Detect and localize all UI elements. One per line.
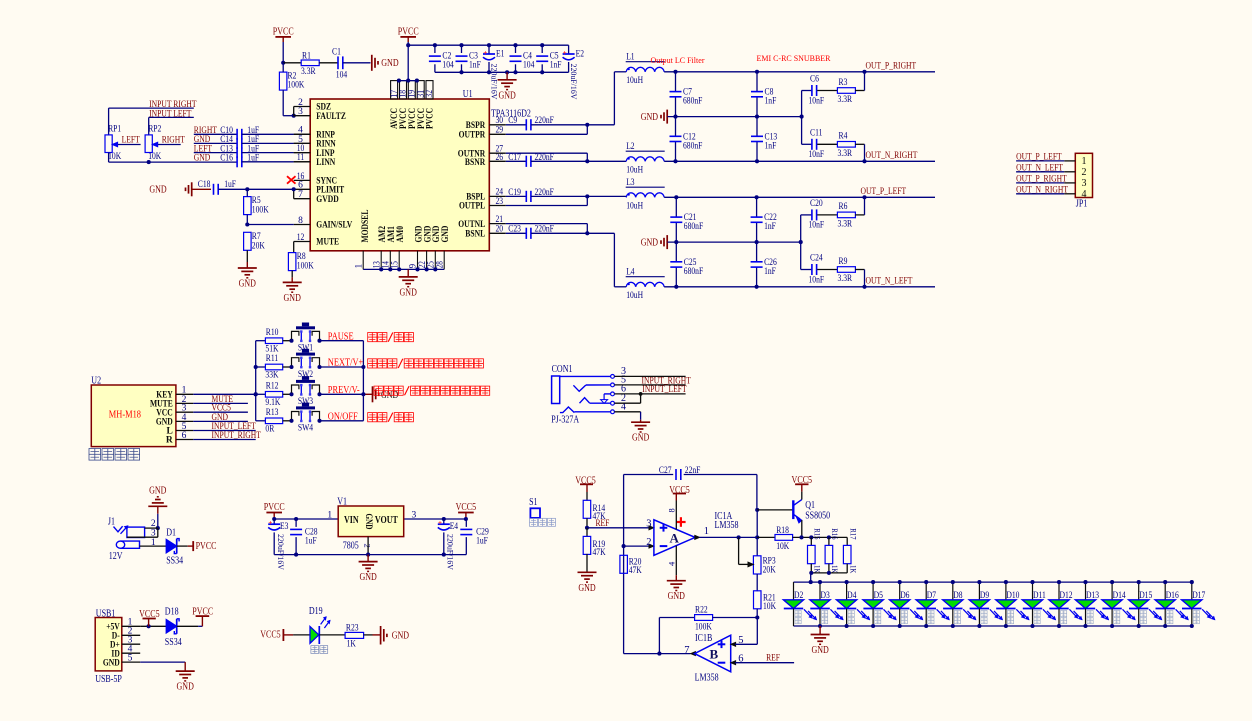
svg-text:PVCC: PVCC	[426, 108, 436, 129]
svg-text:1uF: 1uF	[224, 180, 236, 190]
svg-text:3: 3	[1082, 178, 1087, 189]
svg-text:5: 5	[128, 654, 133, 664]
svg-text:9.1K: 9.1K	[265, 398, 280, 408]
svg-text:GAIN/SLV: GAIN/SLV	[316, 221, 352, 231]
svg-text:D16: D16	[1166, 591, 1179, 601]
svg-text:D18: D18	[165, 607, 179, 618]
svg-text:L3: L3	[626, 178, 635, 188]
svg-text:100K: 100K	[695, 622, 712, 632]
svg-text:22nF: 22nF	[685, 466, 701, 476]
svg-text:+: +	[438, 519, 442, 527]
svg-text:D15: D15	[1139, 591, 1152, 601]
svg-text:GND: GND	[149, 184, 166, 195]
svg-text:1nF: 1nF	[765, 97, 777, 107]
svg-text:R22: R22	[695, 605, 708, 615]
svg-text:D10: D10	[1006, 591, 1019, 601]
svg-text:AM0: AM0	[396, 226, 406, 243]
svg-text:C11: C11	[810, 128, 823, 138]
svg-text:GND: GND	[668, 591, 685, 602]
svg-text:U1: U1	[463, 89, 473, 100]
svg-text:RP2: RP2	[148, 125, 161, 135]
svg-text:L1: L1	[626, 52, 635, 62]
svg-text:GND: GND	[149, 485, 166, 496]
svg-text:INPUT_LEFT: INPUT_LEFT	[642, 385, 686, 395]
svg-text:+: +	[483, 49, 487, 57]
svg-text:REF: REF	[766, 653, 780, 663]
svg-text:SS8050: SS8050	[805, 511, 830, 522]
svg-text:3: 3	[298, 107, 303, 117]
svg-text:7: 7	[298, 190, 303, 200]
svg-text:1nF: 1nF	[765, 141, 777, 151]
svg-text:ON/OFF: ON/OFF	[328, 411, 358, 422]
svg-text:1nF: 1nF	[469, 61, 481, 71]
svg-text:C27: C27	[659, 466, 672, 476]
svg-text:0R: 0R	[265, 425, 274, 435]
svg-text:R23: R23	[346, 624, 359, 634]
svg-text:33K: 33K	[265, 371, 278, 381]
svg-text:J1: J1	[108, 517, 115, 528]
svg-text:GVDD: GVDD	[316, 195, 339, 205]
svg-text:220uF/16V: 220uF/16V	[569, 64, 579, 101]
svg-text:Q1: Q1	[805, 500, 815, 511]
svg-text:A: A	[670, 531, 680, 546]
svg-text:C18: C18	[198, 180, 211, 190]
svg-text:RIGHT: RIGHT	[162, 135, 185, 145]
svg-text:R: R	[166, 436, 173, 446]
svg-text:JP1: JP1	[1076, 198, 1088, 209]
svg-text:BSNR: BSNR	[465, 158, 485, 168]
svg-text:BSNL: BSNL	[465, 230, 485, 240]
svg-text:MUTE: MUTE	[316, 238, 339, 248]
svg-text:220nF: 220nF	[535, 225, 554, 235]
svg-text:1K: 1K	[347, 640, 356, 650]
svg-text:680nF: 680nF	[684, 222, 703, 232]
svg-text:GND: GND	[194, 154, 211, 164]
svg-text:E4: E4	[450, 522, 459, 532]
svg-text:2: 2	[646, 537, 651, 548]
svg-text:R1: R1	[302, 51, 311, 61]
svg-text:C17: C17	[508, 153, 521, 163]
svg-text:8: 8	[298, 216, 303, 226]
svg-text:VIN: VIN	[344, 515, 359, 526]
svg-text:3: 3	[412, 510, 417, 520]
svg-text:10K: 10K	[763, 602, 776, 612]
svg-text:12V: 12V	[109, 551, 123, 562]
svg-text:IC1B: IC1B	[695, 633, 713, 644]
svg-text:C1: C1	[332, 47, 341, 57]
svg-text:B: B	[710, 646, 719, 661]
svg-text:S1: S1	[529, 497, 537, 508]
svg-text:R9: R9	[839, 257, 848, 267]
svg-text:680nF: 680nF	[684, 267, 703, 277]
svg-text:D5: D5	[874, 591, 883, 601]
svg-text:3.3R: 3.3R	[838, 95, 853, 105]
svg-text:D8: D8	[953, 591, 962, 601]
svg-text:220nF: 220nF	[535, 188, 554, 198]
svg-text:7: 7	[684, 645, 689, 656]
svg-text:220uF/16V: 220uF/16V	[445, 534, 455, 571]
svg-text:GND: GND	[811, 645, 828, 656]
svg-text:D14: D14	[1113, 591, 1126, 601]
svg-text:GND: GND	[441, 226, 451, 243]
svg-text:OUT_P_LEFT: OUT_P_LEFT	[861, 187, 907, 197]
svg-text:GND: GND	[498, 90, 515, 101]
svg-text:D11: D11	[1033, 591, 1046, 601]
svg-text:OUTPR: OUTPR	[459, 131, 486, 141]
svg-text:1nF: 1nF	[764, 267, 776, 277]
svg-text:220uF/16V: 220uF/16V	[276, 534, 286, 571]
svg-text:R18: R18	[776, 526, 789, 536]
svg-text:+: +	[563, 49, 567, 57]
svg-text:7805: 7805	[343, 540, 359, 551]
svg-text:D6: D6	[900, 591, 909, 601]
svg-text:PVCC: PVCC	[264, 502, 285, 513]
svg-text:GND: GND	[632, 433, 649, 444]
svg-text:C9: C9	[508, 116, 517, 126]
svg-text:1: 1	[1082, 156, 1087, 167]
svg-text:220nF: 220nF	[535, 153, 554, 163]
svg-text:10nF: 10nF	[809, 275, 825, 285]
svg-text:47K: 47K	[593, 548, 606, 558]
svg-text:10nF: 10nF	[809, 150, 825, 160]
svg-text:PVCC: PVCC	[273, 27, 294, 38]
svg-text:L2: L2	[626, 142, 635, 152]
svg-text:GND: GND	[400, 287, 417, 298]
svg-text:R12: R12	[266, 382, 279, 392]
svg-text:VCC5: VCC5	[456, 502, 477, 513]
svg-text:OUT_P_RIGHT: OUT_P_RIGHT	[866, 61, 917, 71]
svg-text:10uH: 10uH	[626, 165, 643, 175]
svg-text:220nF: 220nF	[535, 116, 554, 126]
svg-text:D17: D17	[1192, 591, 1205, 601]
svg-text:6: 6	[182, 431, 187, 441]
svg-text:GND: GND	[359, 572, 376, 583]
svg-text:1: 1	[327, 510, 332, 520]
svg-text:1uF: 1uF	[305, 536, 317, 546]
svg-text:D7: D7	[927, 591, 936, 601]
svg-text:3.3R: 3.3R	[838, 219, 853, 229]
svg-text:OUTPL: OUTPL	[459, 202, 485, 212]
svg-text:RP1: RP1	[108, 125, 121, 135]
svg-text:GND: GND	[392, 630, 409, 641]
svg-text:PAUSE: PAUSE	[328, 331, 354, 342]
svg-text:8: 8	[666, 508, 676, 512]
svg-text:OUT_N_LEFT: OUT_N_LEFT	[866, 276, 913, 286]
svg-text:VOUT: VOUT	[375, 515, 398, 526]
svg-text:V1: V1	[337, 497, 347, 508]
svg-text:C20: C20	[810, 199, 823, 209]
svg-text:10uH: 10uH	[626, 76, 643, 86]
svg-text:28: 28	[434, 261, 444, 269]
svg-text:MODSEL: MODSEL	[361, 210, 371, 243]
svg-text:LEFT: LEFT	[122, 135, 140, 145]
svg-text:OUT_N_RIGHT: OUT_N_RIGHT	[866, 151, 918, 161]
svg-text:D3: D3	[821, 591, 830, 601]
svg-text:PJ-327A: PJ-327A	[551, 415, 580, 426]
svg-text:GND: GND	[578, 583, 595, 594]
svg-text:R15: R15	[813, 528, 823, 539]
svg-text:10K: 10K	[148, 152, 161, 162]
svg-text:104: 104	[523, 61, 535, 71]
svg-text:GND: GND	[641, 112, 658, 123]
svg-text:D4: D4	[847, 591, 856, 601]
svg-text:1uF: 1uF	[476, 536, 488, 546]
svg-text:10uH: 10uH	[626, 291, 643, 301]
svg-text:E1: E1	[496, 50, 505, 60]
svg-text:10K: 10K	[108, 152, 121, 162]
svg-text:C6: C6	[810, 75, 819, 85]
svg-text:100K: 100K	[288, 81, 305, 91]
svg-text:D9: D9	[980, 591, 989, 601]
svg-text:3: 3	[151, 529, 156, 539]
svg-text:GND: GND	[284, 293, 301, 304]
svg-text:LM358: LM358	[695, 672, 719, 683]
svg-text:R13: R13	[266, 408, 279, 418]
svg-text:NEXT/V+: NEXT/V+	[328, 358, 364, 369]
svg-text:C16: C16	[220, 154, 233, 164]
svg-text:PVCC: PVCC	[196, 541, 217, 552]
svg-text:R3: R3	[839, 78, 848, 88]
svg-text:20K: 20K	[252, 241, 265, 251]
svg-text:10K: 10K	[776, 542, 789, 552]
svg-text:VCC5: VCC5	[260, 630, 281, 641]
svg-text:3.3R: 3.3R	[838, 274, 853, 284]
svg-text:1nF: 1nF	[764, 222, 776, 232]
svg-text:1nF: 1nF	[550, 61, 562, 71]
svg-text:E2: E2	[576, 50, 585, 60]
svg-text:GND: GND	[381, 58, 398, 69]
svg-text:51K: 51K	[265, 344, 278, 354]
svg-text:12: 12	[297, 233, 305, 243]
svg-text:LINN: LINN	[316, 158, 335, 168]
svg-text:680nF: 680nF	[683, 141, 702, 151]
svg-text:2: 2	[1082, 167, 1087, 178]
svg-text:C23: C23	[508, 225, 521, 235]
svg-text:47K: 47K	[629, 566, 642, 576]
svg-text:32: 32	[425, 90, 435, 98]
svg-text:100K: 100K	[297, 262, 314, 272]
svg-text:PVCC: PVCC	[398, 27, 419, 38]
svg-text:1: 1	[704, 526, 709, 537]
svg-text:EMI C-RC SNUBBER: EMI C-RC SNUBBER	[757, 54, 832, 63]
svg-text:100K: 100K	[252, 206, 269, 216]
svg-text:E3: E3	[280, 522, 289, 532]
svg-text:R11: R11	[266, 354, 279, 364]
svg-text:4: 4	[666, 561, 676, 566]
svg-text:D13: D13	[1086, 591, 1099, 601]
svg-text:CON1: CON1	[552, 364, 573, 375]
svg-text:SS34: SS34	[166, 555, 183, 566]
svg-text:3: 3	[646, 519, 651, 530]
svg-text:R16: R16	[830, 528, 840, 539]
svg-text:R6: R6	[839, 202, 848, 212]
svg-text:4: 4	[1082, 189, 1087, 200]
svg-text:104: 104	[336, 70, 348, 80]
svg-text:BSPR: BSPR	[466, 121, 486, 131]
svg-text:D1: D1	[166, 527, 176, 538]
svg-text:R10: R10	[266, 328, 279, 338]
svg-text:10uH: 10uH	[626, 201, 643, 211]
svg-text:GND: GND	[103, 658, 120, 668]
svg-text:GND: GND	[364, 514, 374, 530]
svg-text:+: +	[268, 519, 272, 527]
svg-text:U2: U2	[91, 375, 101, 386]
svg-text:R17: R17	[849, 528, 859, 539]
svg-text:10nF: 10nF	[809, 96, 825, 106]
svg-text:3.3R: 3.3R	[301, 67, 316, 77]
svg-text:L4: L4	[626, 267, 635, 277]
svg-text:D12: D12	[1060, 591, 1073, 601]
svg-text:C19: C19	[508, 188, 521, 198]
svg-text:SS34: SS34	[165, 637, 182, 648]
svg-text:GND: GND	[239, 279, 256, 290]
svg-text:USB-5P: USB-5P	[95, 674, 122, 685]
svg-text:20K: 20K	[763, 565, 776, 575]
svg-text:680nF: 680nF	[683, 97, 702, 107]
svg-text:15: 15	[389, 261, 399, 269]
svg-text:GND: GND	[641, 238, 658, 249]
svg-text:1: 1	[353, 264, 363, 269]
svg-text:FAULTZ: FAULTZ	[316, 112, 346, 122]
svg-text:GND: GND	[177, 682, 194, 693]
svg-text:Output LC Filter: Output LC Filter	[651, 56, 705, 65]
svg-text:D19: D19	[309, 606, 323, 617]
svg-text:104: 104	[442, 61, 454, 71]
svg-text:SW4: SW4	[298, 424, 313, 434]
svg-text:R4: R4	[839, 132, 848, 142]
svg-text:D2: D2	[794, 591, 803, 601]
svg-text:C24: C24	[810, 254, 823, 264]
svg-text:1K: 1K	[849, 565, 859, 574]
svg-text:PREV/V-: PREV/V-	[328, 385, 360, 396]
svg-text:OUTNL: OUTNL	[458, 220, 485, 230]
svg-text:LM358: LM358	[715, 520, 739, 531]
svg-text:10nF: 10nF	[809, 221, 825, 231]
svg-text:MH-M18: MH-M18	[109, 410, 141, 421]
svg-text:3.3R: 3.3R	[838, 149, 853, 159]
